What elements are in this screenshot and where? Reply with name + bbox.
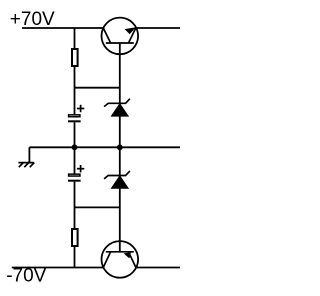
wire base branch top: [75, 87, 120, 89]
transistor Q1 body: [102, 18, 139, 55]
svg-text:-70V: -70V: [6, 266, 46, 287]
transistor Q1 internals: [103, 27, 136, 43]
wire bottom rail -70V: [12, 267, 180, 269]
wire base branch bottom: [75, 206, 120, 208]
junction dot left: [72, 144, 78, 150]
capacitor C1: [68, 105, 84, 122]
wire R1 to C1: [74, 66, 76, 114]
wire R2 to bottom rail: [74, 246, 76, 268]
wire C2 to R2: [74, 182, 76, 229]
wire C1 to mid rail to C2: [74, 122, 76, 173]
capacitor C2: [68, 165, 84, 181]
wire left column top (rail to R1): [74, 28, 76, 49]
svg-text:+70V: +70V: [10, 9, 55, 30]
wire ground stem: [28, 147, 30, 162]
zener diode D2: [104, 171, 130, 189]
resistor R1: [72, 49, 78, 66]
wire top rail +70V: [22, 27, 180, 29]
junction dot center: [117, 144, 123, 150]
ground: [18, 163, 34, 168]
zener diode D1: [104, 99, 130, 117]
wire center column (Q1 base - D1 - D2 - Q2 base): [119, 43, 121, 252]
transistor Q2 internals: [103, 252, 136, 268]
wire mid rail (output node): [29, 146, 180, 148]
transistor Q2 body: [102, 241, 139, 278]
resistor R2: [72, 229, 78, 246]
